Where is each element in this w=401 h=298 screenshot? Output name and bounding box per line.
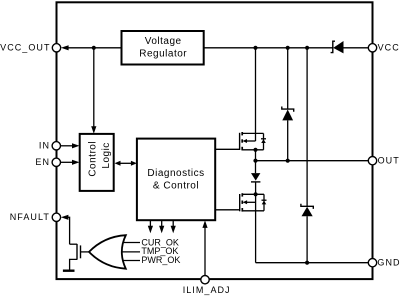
pin IN — [52, 142, 60, 150]
gate lead from diagnostics — [215, 209, 240, 211]
bottom stub — [242, 149, 263, 151]
node: GND line junction at Z2 — [305, 261, 309, 265]
gate bar — [80, 245, 82, 258]
svg-text:VCC: VCC — [378, 43, 400, 53]
pin OUT — [368, 157, 376, 165]
wire: TMP_OK input — [122, 251, 141, 253]
svg-text:Logic: Logic — [101, 142, 112, 168]
bottom stub — [242, 210, 264, 212]
wire: M2 source down to GND line — [255, 194, 257, 262]
right edge with body diode — [263, 194, 265, 211]
gate bar — [239, 133, 241, 150]
wire: top rail right segment (VCC to regulator) — [343, 47, 368, 49]
wire: bidirectional arrow control logic to diagnostics — [119, 162, 133, 164]
gate lead to gate G1 — [81, 251, 90, 253]
wire: top rail left segment (regulator to VCC_OUT) — [68, 47, 122, 49]
wire: EN arrow — [61, 161, 73, 163]
wire: CUR_OK input — [123, 242, 140, 244]
wire: IN arrow — [61, 145, 73, 147]
IC outer boundary — [57, 2, 373, 279]
wire: ILIM_ADJ up into diagnostics — [204, 228, 206, 276]
channel bar — [76, 244, 78, 260]
wire: diagnostics output arrow 2 — [161, 220, 163, 226]
gate lead from diagnostics — [215, 148, 239, 150]
wire: down to control logic — [93, 48, 95, 127]
svg-text:GND: GND — [377, 258, 400, 268]
node: OUT line junction at Z1 — [286, 159, 290, 163]
transistor Q1 (open-drain fault output) — [70, 244, 90, 270]
arrowhead into NFAULT — [61, 215, 69, 220]
wire: diagnostics output arrow 3 — [172, 220, 174, 226]
diagnostics & control box U3 — [137, 139, 215, 221]
zener Z2 (VCC-GND clamp) — [301, 48, 313, 263]
diode D2 (OUT to M2) — [251, 161, 260, 195]
svg-text:& Control: & Control — [153, 181, 199, 192]
svg-text:Regulator: Regulator — [139, 48, 187, 59]
node: rail to control logic junction — [92, 46, 96, 50]
drain stub — [70, 243, 77, 245]
control logic box U2 — [80, 134, 114, 191]
voltage regulator box U1 — [122, 31, 204, 65]
node: OUT line junction at M1 — [253, 159, 257, 163]
pin ILIM_ADJ — [201, 276, 209, 284]
wire: diagnostics output arrow 1 — [149, 220, 151, 226]
top stub — [242, 193, 264, 195]
wire: GND line — [256, 262, 369, 264]
arrowhead into control logic top — [91, 126, 96, 134]
svg-text:Voltage: Voltage — [145, 36, 182, 47]
pin EN — [52, 158, 60, 166]
right edge with body diode — [263, 133, 265, 149]
node: M1 source junction — [253, 148, 257, 152]
body arrow stub — [243, 139, 248, 143]
pin VCC — [368, 44, 376, 52]
svg-text:IN: IN — [39, 141, 50, 151]
mosfet M1 (high-side pass FET) — [215, 132, 266, 150]
wire: M1 drain from rail — [255, 48, 257, 141]
svg-text:OUT: OUT — [378, 156, 400, 166]
wire: PWR_OK input — [123, 260, 140, 262]
node: rail junction Z1 — [286, 46, 290, 50]
svg-text:ILIM_ADJ: ILIM_ADJ — [183, 285, 231, 295]
arrowhead into VCC_OUT — [61, 45, 69, 50]
source stub — [70, 259, 77, 270]
wire: NFAULT from Q1 — [68, 217, 69, 244]
svg-text:NFAULT: NFAULT — [10, 212, 50, 222]
svg-text:PWR_OK: PWR_OK — [141, 255, 180, 265]
ground — [63, 270, 75, 272]
svg-text:Control: Control — [88, 141, 99, 177]
node: M2 drain junction — [254, 192, 258, 196]
svg-text:VCC_OUT: VCC_OUT — [0, 43, 50, 53]
pin GND — [368, 259, 376, 267]
body arrow stub — [243, 200, 248, 204]
svg-text:Diagnostics: Diagnostics — [147, 168, 204, 179]
gate bar — [239, 194, 241, 211]
zener Z1 (OUT clamp) — [282, 48, 294, 161]
schottky diode D1 (VCC input) — [331, 41, 344, 53]
node: rail junction M1 — [253, 46, 257, 50]
top stub — [242, 132, 263, 134]
pin NFAULT — [52, 213, 60, 221]
svg-text:EN: EN — [35, 157, 50, 167]
pin VCC_OUT — [52, 44, 60, 52]
gate G1 (OR gate, mirrored) — [89, 235, 126, 269]
channel segments — [241, 132, 243, 135]
wire: OUT line — [256, 160, 369, 162]
node: rail junction Z2 — [305, 46, 309, 50]
channel segments — [241, 193, 243, 196]
wire: M1 source to OUT line — [255, 150, 257, 161]
mosfet M2 (low-side FET) — [215, 193, 266, 211]
